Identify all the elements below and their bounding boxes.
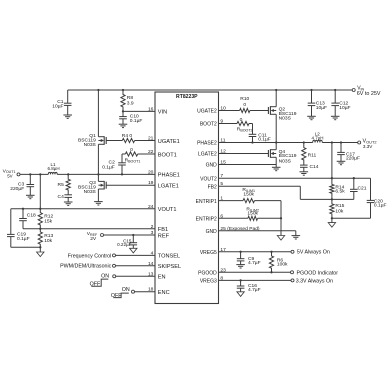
resistor R10 [240, 96, 250, 113]
svg-text:FB1: FB1 [158, 227, 168, 233]
svg-text:BOOT2: BOOT2 [200, 122, 217, 128]
svg-text:C14: C14 [310, 164, 319, 170]
ground of Q4 [272, 167, 281, 170]
svg-text:N03S: N03S [84, 189, 97, 195]
svg-text:0: 0 [130, 147, 133, 153]
capacitor C13 [308, 90, 327, 116]
svg-text:RT8223P: RT8223P [176, 94, 198, 100]
capacitor C12 [331, 90, 350, 116]
capacitor C2 [102, 160, 126, 176]
IC U1 right pin names [196, 109, 218, 285]
svg-text:2V: 2V [90, 236, 97, 242]
wire VOUT2 sense pin 7 [219, 177, 371, 179]
svg-text:0.1µF: 0.1µF [130, 118, 143, 124]
pin 25 exposed pad label [220, 226, 260, 232]
svg-text:GND: GND [206, 229, 218, 235]
wire RILIM1 to junction [255, 201, 282, 219]
capacitor C9 [237, 252, 261, 266]
switch EN on-off [90, 273, 155, 287]
wire VOUT1 tap vertical [39, 174, 41, 208]
svg-text:100k: 100k [277, 261, 288, 267]
svg-text:RBOOT1: RBOOT1 [125, 158, 141, 164]
wire RBOOT1 to C2 [122, 154, 125, 163]
svg-text:6V to 25V: 6V to 25V [357, 91, 381, 97]
svg-text:N03S: N03S [279, 159, 292, 165]
terminal PWM DEM Ultrasonic [60, 264, 155, 270]
svg-text:0.1µF: 0.1µF [258, 137, 271, 143]
svg-text:VREG3: VREG3 [200, 279, 217, 285]
wire VIN top rail [68, 89, 353, 91]
ground of C4 [64, 202, 73, 205]
transistor Q1 [78, 133, 106, 148]
IC U1 right pin numbers [220, 106, 226, 282]
node phase1 junctions [29, 173, 99, 175]
terminal 5V always on [291, 250, 330, 256]
wire UGATE2 pin 10 [219, 110, 240, 112]
svg-text:EN: EN [158, 275, 166, 281]
svg-text:OFF: OFF [111, 293, 122, 299]
wire PGOOD pin 23 [219, 271, 291, 273]
capacitor C17 [337, 143, 360, 162]
wire PHASE2 line pin 11 [219, 142, 313, 144]
wire R15 bottom node [331, 217, 371, 222]
ground of C17 [337, 161, 346, 164]
svg-text:3.9: 3.9 [127, 101, 134, 107]
svg-text:R10: R10 [240, 96, 249, 102]
ground of pin 25 [292, 236, 301, 239]
resistor RBOOT2 [237, 117, 253, 132]
svg-text:0.22µF: 0.22µF [117, 242, 132, 247]
svg-text:220µF: 220µF [10, 186, 24, 192]
svg-text:10µF: 10µF [339, 105, 350, 111]
svg-text:C4: C4 [58, 194, 65, 200]
resistor R11 [302, 143, 317, 166]
wire Q4 source and GND pin 15 [219, 157, 277, 167]
wire R14 tap vertical [331, 143, 333, 179]
svg-text:C18: C18 [27, 212, 36, 218]
terminal PGOOD indicator [291, 271, 339, 277]
ground of Q3 [94, 202, 103, 205]
IC U1 left pin numbers [148, 106, 154, 292]
wire R10 to Q2 gate [250, 110, 269, 112]
terminal VREF [87, 231, 104, 242]
svg-text:3.3V Always On: 3.3V Always On [296, 279, 333, 285]
svg-text:10k: 10k [335, 208, 343, 214]
svg-text:PWM/DEM/Ultrasonic: PWM/DEM/Ultrasonic [60, 264, 112, 270]
svg-text:Frequency Control: Frequency Control [68, 253, 112, 259]
ground of C9 [236, 265, 245, 268]
ground of R13 [37, 252, 44, 257]
capacitor C10 [119, 111, 142, 124]
wire Q1 drain [97, 90, 99, 137]
svg-text:0.1µF: 0.1µF [374, 203, 387, 209]
svg-text:VIN: VIN [158, 110, 167, 116]
wire Q3 source [97, 189, 99, 202]
node VIN rail junctions [97, 89, 336, 91]
wire R4 to pin 21 [135, 140, 155, 142]
svg-text:10µF: 10µF [316, 105, 327, 111]
terminal VIN input [352, 85, 381, 97]
wire phase1 line to pin 20 [57, 173, 155, 175]
node phase2 junctions [251, 141, 342, 143]
svg-text:10k: 10k [44, 238, 52, 244]
wire LGATE2 pin 12 [219, 153, 269, 155]
svg-text:0.1µF: 0.1µF [17, 236, 30, 242]
wire VOUT1 phase1 line [20, 173, 48, 175]
svg-text:UGATE1: UGATE1 [158, 139, 180, 145]
wire ENTRIP2 pin 6 [219, 217, 248, 219]
resistor R5 [58, 174, 71, 194]
wire BOOT1 pin 22 [138, 153, 155, 155]
resistor RILIM2 [246, 207, 259, 221]
svg-text:GND: GND [206, 163, 218, 169]
capacitor C21 [350, 178, 367, 199]
wire FB1 to pin 2 [23, 228, 155, 230]
svg-text:R15: R15 [335, 203, 344, 209]
svg-text:FB2: FB2 [208, 184, 217, 190]
svg-text:ENC: ENC [158, 290, 170, 296]
ground of C16 [237, 292, 244, 297]
wire RBOOT2 to C11 [249, 124, 253, 135]
svg-text:TONSEL: TONSEL [158, 254, 180, 260]
wire VREG5 pin 17 [219, 251, 292, 253]
ground of C13 [307, 116, 316, 119]
svg-text:RBOOT2: RBOOT2 [237, 127, 253, 133]
wire LGATE1 pin 19 [106, 184, 155, 186]
ground of C14 [300, 172, 309, 175]
svg-text:SKIPSEL: SKIPSEL [158, 264, 181, 270]
wire Q4 drain [275, 143, 277, 150]
svg-text:3.3V: 3.3V [363, 144, 373, 149]
svg-text:C21: C21 [358, 186, 367, 192]
ground of C1 [63, 115, 72, 118]
svg-text:OFF: OFF [90, 281, 101, 287]
svg-text:ENTRIP1: ENTRIP1 [196, 199, 217, 205]
svg-text:4.7µH: 4.7µH [311, 135, 323, 140]
svg-text:4.7µF: 4.7µF [248, 287, 261, 293]
capacitor C20 [367, 178, 387, 218]
wire GND pin 25 [219, 231, 296, 236]
wire Q1 source to phase node [97, 144, 99, 174]
svg-text:6.8µH: 6.8µH [48, 166, 60, 171]
svg-text:LGATE2: LGATE2 [198, 152, 217, 158]
capacitor C18 [19, 209, 36, 229]
svg-text:220µF: 220µF [346, 156, 360, 162]
resistor R4 [122, 133, 135, 142]
resistor R15 [330, 199, 345, 218]
wire RILIM2 to junction [258, 217, 283, 235]
svg-text:0: 0 [240, 117, 243, 123]
wire FB2 pin 5 [219, 186, 354, 200]
resistor R13 [38, 229, 53, 248]
wire VOUT1 sense rail to pin 24 [11, 208, 155, 210]
svg-text:N03S: N03S [84, 142, 97, 148]
svg-text:4.7µF: 4.7µF [248, 260, 261, 266]
resistor RBOOT1 [125, 147, 141, 163]
svg-text:150k: 150k [247, 211, 258, 217]
svg-text:REF: REF [158, 233, 170, 239]
svg-text:R8: R8 [127, 95, 134, 101]
ground of C10 [119, 124, 128, 127]
wire UGATE1 to R4 [106, 140, 122, 142]
svg-text:0.1µF: 0.1µF [102, 164, 115, 170]
wire Q2 source to phase2 [275, 114, 277, 142]
terminal Frequency Control [68, 253, 155, 259]
svg-text:15k: 15k [44, 219, 52, 225]
svg-text:R4 0: R4 0 [122, 133, 133, 139]
capacitor C11 [249, 132, 271, 142]
svg-text:UGATE2: UGATE2 [197, 109, 217, 115]
svg-text:VREG5: VREG5 [200, 250, 217, 256]
inductor L1 [48, 162, 60, 175]
transistor Q4 [268, 149, 296, 165]
wire L2 to VOUT2 terminal [322, 142, 357, 144]
resistor R14 [330, 178, 345, 199]
ground of R15 [328, 223, 335, 228]
terminal VOUT1 output [3, 168, 20, 178]
svg-text:R5: R5 [58, 182, 65, 188]
capacitor C3 [10, 174, 34, 195]
svg-text:10µF: 10µF [52, 104, 63, 110]
svg-text:ON: ON [101, 273, 109, 279]
switch ENC on-off [111, 287, 155, 299]
wire ground rail of divider [11, 246, 42, 252]
svg-text:PHASE1: PHASE1 [158, 173, 180, 179]
capacitor C19 [7, 209, 30, 248]
wire Q3 drain [97, 174, 99, 181]
capacitor C4 [58, 194, 72, 202]
resistor R12 [38, 209, 53, 229]
svg-text:6.5k: 6.5k [335, 189, 345, 195]
transistor Q2 [268, 106, 296, 121]
wire Q2 drain [275, 90, 277, 107]
terminal 3.3V always on [291, 279, 333, 285]
resistor R8 [121, 90, 134, 111]
svg-text:PHASE2: PHASE2 [197, 141, 217, 147]
ground of C15 [130, 248, 137, 253]
wire BOOT2 pin 9 [219, 123, 238, 125]
svg-text:150k: 150k [243, 192, 254, 198]
svg-text:PGOOD: PGOOD [198, 271, 217, 277]
svg-text:5V: 5V [7, 174, 12, 179]
resistor RILIM1 [242, 187, 255, 203]
transistor Q3 [78, 180, 106, 195]
svg-text:BSC119: BSC119 [279, 153, 297, 159]
svg-text:VOUT2: VOUT2 [200, 176, 217, 182]
svg-text:LGATE1: LGATE1 [158, 184, 179, 190]
IC U1 left pin names [158, 110, 181, 296]
svg-text:R11: R11 [308, 152, 317, 158]
resistor R6 [269, 252, 288, 272]
svg-text:5V Always On: 5V Always On [297, 250, 330, 256]
svg-text:VOUT1: VOUT1 [158, 207, 177, 213]
wire VIN pin net [122, 110, 155, 112]
capacitor C1 [52, 90, 71, 115]
ground of ENTRIP net [277, 236, 284, 241]
wire ENTRIP1 pin 1 [219, 200, 244, 202]
svg-text:N03S: N03S [279, 115, 292, 121]
wire VREG3 pin 8 [219, 279, 292, 281]
IC U1 RT8223P body [155, 92, 219, 304]
capacitor C16 [237, 280, 261, 293]
ground of C3 [26, 195, 35, 198]
inductor L2 [311, 132, 323, 143]
terminal VOUT2 output [358, 139, 377, 149]
svg-text:PGOOD Indicator: PGOOD Indicator [297, 271, 339, 277]
ground of C12 [331, 116, 340, 119]
svg-text:0: 0 [243, 102, 246, 108]
capacitor C15 [117, 235, 137, 248]
wire REF to pin 3 [104, 234, 156, 236]
svg-text:ON: ON [122, 287, 130, 293]
svg-text:ENTRIP2: ENTRIP2 [196, 217, 217, 223]
capacitor C14 [300, 164, 319, 172]
svg-text:BOOT1: BOOT1 [158, 152, 177, 158]
